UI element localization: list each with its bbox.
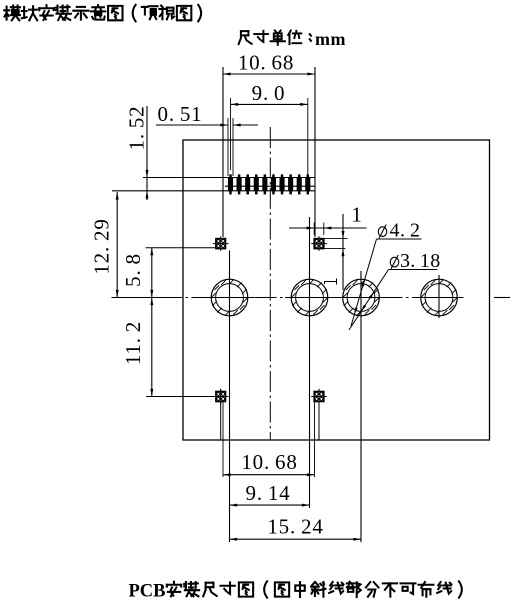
svg-text:mm: mm xyxy=(315,29,346,49)
svg-text:11. 2: 11. 2 xyxy=(121,321,145,365)
svg-text:15. 24: 15. 24 xyxy=(267,515,323,539)
svg-text:5. 8: 5. 8 xyxy=(121,253,145,287)
svg-text:PCB: PCB xyxy=(129,582,166,602)
svg-text:9. 0: 9. 0 xyxy=(252,81,286,105)
svg-text:9. 14: 9. 14 xyxy=(246,481,291,505)
svg-text:10. 68: 10. 68 xyxy=(238,51,294,75)
svg-text:0. 51: 0. 51 xyxy=(158,102,203,126)
svg-text:1: 1 xyxy=(351,203,362,227)
svg-text:12. 29: 12. 29 xyxy=(90,218,114,274)
svg-text:1. 52: 1. 52 xyxy=(125,106,149,151)
svg-text:4. 2: 4. 2 xyxy=(390,219,421,241)
svg-text:3. 18: 3. 18 xyxy=(400,250,441,272)
svg-text:10. 68: 10. 68 xyxy=(241,450,297,474)
